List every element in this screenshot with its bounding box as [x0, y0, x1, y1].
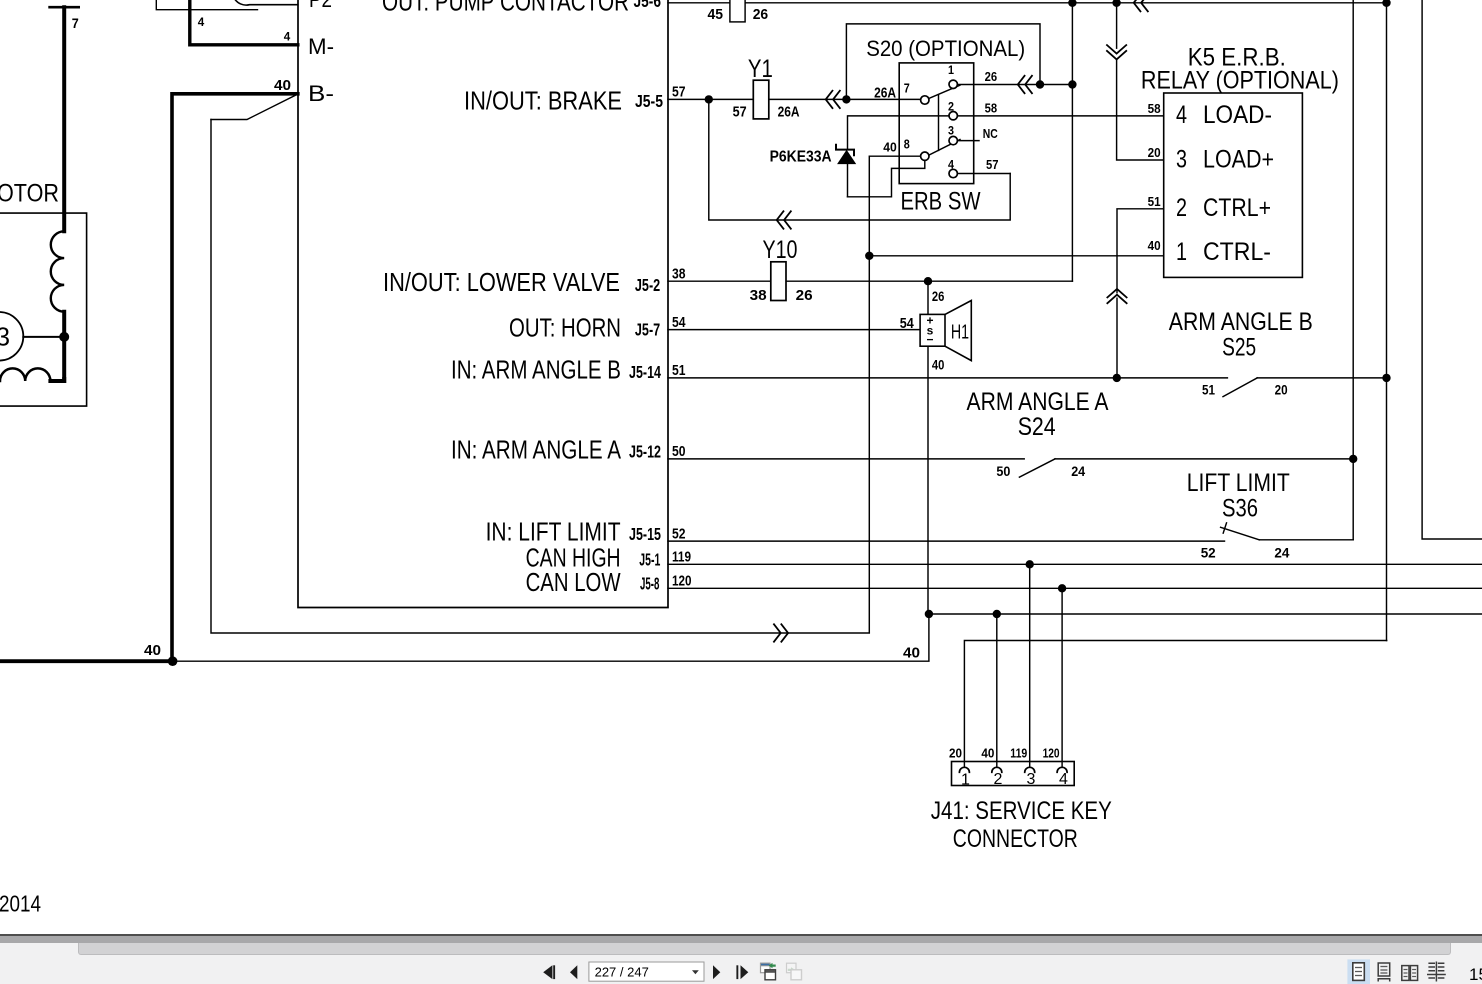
svg-text:40: 40: [903, 645, 920, 662]
TVS diode P6KE33A: [836, 116, 855, 197]
continuous facing mode: [1427, 962, 1446, 982]
junction dot loop/26: [1036, 80, 1044, 88]
label H1: [951, 321, 969, 343]
next page button: [713, 965, 720, 979]
svg-text:2: 2: [994, 771, 1003, 788]
label 20 (S25): [1275, 382, 1288, 398]
label 26A (S20 pin7): [874, 85, 896, 102]
svg-text:51: 51: [1148, 195, 1161, 209]
connector chevrons right: [773, 624, 788, 643]
svg-text:26A: 26A: [778, 104, 800, 121]
svg-text:20: 20: [1148, 146, 1161, 160]
svg-text:CONNECTOR: CONNECTOR: [953, 825, 1078, 853]
svg-text:J5-1: J5-1: [639, 549, 660, 569]
wire net20 K5 pin3 riser: [1117, 3, 1164, 160]
svg-text:CAN LOW: CAN LOW: [526, 567, 621, 597]
svg-text:50: 50: [672, 443, 686, 460]
label 51 (S25): [1202, 382, 1215, 398]
svg-text:4: 4: [1176, 101, 1187, 129]
svg-text:26: 26: [753, 6, 769, 23]
label IN: ARM ANGLE A: [451, 434, 622, 464]
label 7: [72, 15, 79, 31]
svg-text:J41: SERVICE KEY: J41: SERVICE KEY: [931, 797, 1112, 825]
wire net20 link: [964, 641, 1386, 767]
label Y1: [748, 55, 773, 83]
junction dot net20 end: [1382, 0, 1390, 7]
label IN/OUT: LOWER VALVE: [383, 267, 620, 297]
wire net24 S24 right: [1055, 458, 1353, 460]
svg-text:3: 3: [1176, 146, 1187, 174]
label 26 (fuse right): [753, 6, 769, 23]
svg-text:J5-8: J5-8: [640, 574, 660, 594]
horn H1: [920, 301, 971, 361]
wire J5-14 net51: [668, 377, 1227, 379]
label pin 2: [948, 102, 954, 114]
label LIFT LIMIT: [1187, 469, 1290, 497]
svg-text:J5-7: J5-7: [635, 320, 660, 340]
label NC: [983, 127, 998, 141]
label S36: [1222, 494, 1258, 522]
switch S36 blade: [1221, 523, 1260, 540]
wire B- branch diagonal: [211, 96, 295, 120]
label 51 (K5): [1148, 195, 1161, 209]
label K5 pin 3 LOAD+: [1176, 146, 1274, 174]
svg-text:227 / 247: 227 / 247: [595, 965, 649, 980]
svg-text:120: 120: [672, 572, 692, 589]
label ARM ANGLE B: [1169, 308, 1313, 336]
svg-text:3: 3: [1027, 771, 1036, 788]
label 52 (J5-15): [672, 525, 686, 542]
label 38 (Y10 left): [750, 287, 767, 304]
label OUT: HORN: [509, 313, 621, 343]
wire net24 S36 right: [1259, 539, 1353, 541]
svg-text:3: 3: [0, 322, 10, 352]
connector J41 drop net120: [1061, 588, 1063, 767]
label 54 (H1): [900, 315, 915, 332]
svg-text:40: 40: [1148, 239, 1161, 253]
wire J5-8 net120 CAN low: [668, 587, 1482, 589]
svg-text:−: −: [926, 333, 933, 347]
connector chevrons on 57 return: [777, 211, 792, 230]
pin label M-: [308, 34, 334, 59]
svg-text:OUT: HORN: OUT: HORN: [509, 313, 621, 343]
svg-text:40: 40: [981, 746, 994, 760]
label IN/OUT: BRAKE: [464, 85, 622, 115]
wire J5-1 net119 CAN high: [668, 563, 1482, 565]
wire J5-15 net52: [668, 540, 1225, 542]
pin label B-: [308, 81, 334, 106]
label MOTOR: [0, 179, 59, 207]
label IN: LIFT LIMIT: [486, 517, 621, 547]
svg-text:38: 38: [672, 265, 686, 282]
label 26 (pin1): [985, 70, 998, 84]
label 24 (S36): [1274, 545, 1289, 561]
J41 pin 1 socket: [959, 767, 969, 772]
label J5-8: [640, 574, 660, 594]
connector J41 drop net119: [1029, 564, 1031, 767]
svg-text:4: 4: [1059, 771, 1068, 788]
connector chevrons on top wire: [1134, 0, 1149, 12]
svg-text:20: 20: [1275, 382, 1288, 398]
label 58 (pin2): [985, 102, 998, 116]
connector J41 drop net40: [996, 614, 998, 767]
label pin 8: [904, 137, 910, 152]
label Y10: [763, 236, 798, 264]
svg-text:26A: 26A: [874, 85, 896, 102]
first page button: [543, 965, 555, 979]
svg-text:OUT: PUMP CONTACTOR: OUT: PUMP CONTACTOR: [382, 0, 629, 17]
connector chevrons on brake wire: [826, 90, 841, 109]
series coil: [0, 368, 64, 381]
svg-text:ARM ANGLE A: ARM ANGLE A: [967, 388, 1109, 416]
svg-text:ERB SW: ERB SW: [901, 188, 981, 216]
wire net51 K5 pin2 drop: [1117, 209, 1164, 378]
svg-text:1: 1: [1176, 238, 1187, 266]
svg-text:52: 52: [1201, 545, 1216, 561]
svg-text:15: 15: [1469, 965, 1482, 984]
wire netB- link: [211, 120, 869, 634]
junction dot net40 bus: [168, 656, 178, 666]
svg-text:S25: S25: [1222, 333, 1256, 361]
relay K5 box: [1164, 93, 1303, 277]
S20 pin 3 contact: [949, 136, 957, 144]
junction dot net40 branch: [865, 252, 873, 260]
svg-text:Y10: Y10: [763, 236, 798, 264]
contactor tip arc: [234, 0, 298, 5]
svg-text:51: 51: [1202, 382, 1215, 398]
label 20 (J41): [949, 746, 962, 760]
svg-text:3: 3: [948, 126, 954, 138]
wire B- thick: [172, 94, 298, 661]
svg-text:40: 40: [144, 642, 161, 659]
junction dot 26 top: [1068, 0, 1076, 7]
wire M- thick: [190, 0, 298, 45]
label K5 pin 4 LOAD-: [1176, 101, 1272, 129]
label 52 (S36): [1201, 545, 1216, 561]
junction dot net20 top: [1112, 0, 1120, 7]
svg-text:45: 45: [708, 6, 724, 23]
J41 pin 3 socket: [1025, 767, 1035, 772]
label 26 (Y10 right): [796, 287, 813, 304]
svg-text:57: 57: [733, 104, 747, 121]
label 20 (K5): [1148, 146, 1161, 160]
wire net57 return loop: [709, 99, 1010, 220]
label pin 3: [948, 126, 954, 138]
junction dot 119/J41: [1026, 560, 1034, 568]
label 119 (J41): [1010, 746, 1027, 760]
S20 blade 7-1: [929, 85, 960, 98]
svg-text:ARM ANGLE B: ARM ANGLE B: [1169, 308, 1313, 336]
svg-text:CTRL-: CTRL-: [1203, 238, 1271, 266]
page number box: [589, 962, 704, 981]
wire J5-2 net38 lower valve: [668, 280, 1072, 282]
svg-text:8: 8: [904, 137, 910, 152]
label pin 7: [904, 81, 910, 96]
label 4 (left): [198, 17, 205, 29]
junction dot 120/J41: [1058, 584, 1066, 592]
label pin 4: [948, 160, 955, 172]
svg-text:1: 1: [948, 65, 955, 77]
label ARM ANGLE A: [967, 388, 1109, 416]
junction dot S24/net24: [1349, 455, 1357, 463]
junction dot 26A: [842, 95, 850, 103]
svg-text:2014: 2014: [0, 891, 41, 917]
label K5 E.R.B.: [1188, 44, 1286, 72]
svg-text:119: 119: [1010, 746, 1027, 760]
next view button (disabled): [787, 963, 802, 980]
wire net40 horn drop: [927, 346, 929, 614]
solenoid Y10: [771, 262, 786, 301]
label 40 (pin8): [883, 140, 897, 155]
wire NC stub pin3: [957, 140, 979, 142]
label 40 (K5): [1148, 239, 1161, 253]
junction dot 38/H1: [924, 277, 932, 285]
label S24: [1018, 413, 1056, 441]
svg-text:NC: NC: [983, 127, 998, 141]
svg-text:26: 26: [796, 287, 813, 304]
wire net58 S20 pin2 to K5: [848, 115, 1163, 117]
svg-text:20: 20: [949, 746, 962, 760]
svg-text:CTRL+: CTRL+: [1203, 194, 1271, 222]
switch S24 blade: [1019, 459, 1055, 477]
wire armature link: [23, 336, 64, 338]
svg-text:IN/OUT: BRAKE: IN/OUT: BRAKE: [464, 85, 622, 115]
label P6KE33A: [770, 149, 832, 166]
label 50 (S24): [996, 463, 1010, 479]
label 40 (riser): [903, 645, 920, 662]
connector chevrons up: [1107, 289, 1128, 304]
last page button: [736, 965, 748, 979]
label S25: [1222, 333, 1256, 361]
svg-text:MOTOR: MOTOR: [0, 179, 59, 207]
label K5 pin 2 CTRL+: [1176, 194, 1271, 222]
vertical net20 right: [1386, 3, 1388, 641]
svg-text:M-: M-: [308, 34, 334, 59]
label 45: [708, 6, 724, 23]
label J41 pin numbers: [961, 771, 1068, 789]
junction dot 26 riser: [1068, 80, 1076, 88]
S20 pin 7 contact: [921, 96, 929, 104]
svg-text:RELAY (OPTIONAL): RELAY (OPTIONAL): [1141, 67, 1339, 95]
label 120 (J41): [1043, 746, 1060, 760]
connector chevrons on 26 wire: [1018, 75, 1033, 94]
label K5 pin 1 CTRL-: [1176, 238, 1271, 266]
svg-text:B-: B-: [308, 81, 334, 106]
svg-text:IN: ARM ANGLE B: IN: ARM ANGLE B: [451, 355, 621, 385]
wire S20 bypass loop: [846, 24, 1040, 100]
svg-text:S20 (OPTIONAL): S20 (OPTIONAL): [866, 36, 1025, 61]
wire field to armature: [62, 312, 66, 381]
svg-text:P2: P2: [309, 0, 332, 12]
armature M3: [0, 312, 23, 361]
label 4 (right): [284, 32, 291, 44]
label J5-7: [635, 320, 660, 340]
svg-text:24: 24: [1071, 463, 1085, 479]
wire motor field top: [62, 7, 66, 231]
svg-text:54: 54: [900, 315, 915, 332]
label 50 (J5-12): [672, 443, 686, 460]
J41 pin 2 socket: [992, 767, 1002, 772]
fuse F? 45/26: [730, 0, 745, 22]
terminal 7 cap: [50, 6, 79, 9]
svg-text:119: 119: [672, 548, 691, 565]
label ERB SW: [901, 188, 981, 216]
wire net57 S20 pin4: [957, 173, 1010, 175]
svg-text:54: 54: [672, 314, 686, 331]
vertical right edge stub: [1422, 0, 1482, 539]
label 2014: [0, 891, 41, 917]
motor box: [0, 213, 87, 406]
wire net40 bus thin: [173, 614, 929, 661]
junction dot motor: [59, 332, 69, 342]
continuous page mode: [1378, 963, 1390, 982]
label 40 (J41): [981, 746, 994, 760]
connector chevrons down: [1106, 45, 1127, 60]
svg-text:50: 50: [996, 463, 1010, 479]
svg-text:40: 40: [883, 140, 897, 155]
label J5-14: [629, 362, 661, 382]
solenoid Y1: [753, 80, 769, 119]
svg-text:51: 51: [672, 362, 686, 379]
svg-text:4: 4: [198, 17, 205, 29]
label 40 (bus): [144, 642, 161, 659]
svg-text:S24: S24: [1018, 413, 1056, 441]
label CONNECTOR: [953, 825, 1078, 853]
svg-text:LOAD+: LOAD+: [1203, 146, 1274, 174]
svg-text:24: 24: [1274, 545, 1289, 561]
wire J5-12 net50: [668, 458, 1024, 460]
junction dot 51: [1113, 374, 1121, 382]
vertical net24 right: [1352, 0, 1354, 540]
label 57 (brake): [672, 84, 686, 101]
svg-text:H1: H1: [951, 321, 969, 343]
svg-text:IN: ARM ANGLE A: IN: ARM ANGLE A: [451, 434, 622, 464]
label J5-2: [635, 275, 660, 295]
svg-text:LIFT LIMIT: LIFT LIMIT: [1187, 469, 1290, 497]
wire J5-5 net57 brake: [668, 98, 921, 100]
svg-text:26: 26: [985, 70, 998, 84]
single page mode (active): [1347, 959, 1370, 984]
svg-text:40: 40: [932, 357, 945, 372]
svg-text:4: 4: [948, 160, 955, 172]
svg-text:7: 7: [904, 81, 910, 96]
wire net26 to horn: [927, 281, 929, 314]
wire J5-7 net54 horn: [668, 329, 920, 331]
pin label P2: [309, 0, 332, 12]
label pin 1: [948, 65, 955, 77]
label 40 (H1): [932, 357, 945, 372]
S20 pin 4 contact: [949, 169, 957, 177]
junction dot S25/net20: [1382, 374, 1390, 382]
S20 blade 8-3: [930, 140, 960, 155]
label J5-12: [629, 442, 661, 462]
svg-text:4: 4: [284, 32, 291, 44]
wire net40 link: [929, 613, 1482, 615]
label 38 (J5-2): [672, 265, 686, 282]
label RELAY (OPTIONAL): [1141, 67, 1339, 95]
label H1 polarity: [926, 313, 933, 346]
S20 pin 2 contact: [949, 112, 957, 120]
label 26 (H1): [932, 289, 945, 304]
label 54 (J5-7): [672, 314, 686, 331]
svg-text:26: 26: [932, 289, 945, 304]
contactor box bottom: [156, 0, 257, 10]
svg-text:57: 57: [672, 84, 686, 101]
junction dot J5-5/57: [705, 95, 713, 103]
wire net40 to K5 pin1: [869, 255, 1163, 257]
label 120: [672, 572, 692, 589]
junction dot net40/J41: [993, 610, 1001, 618]
label 58 (K5): [1148, 102, 1161, 116]
svg-text:40: 40: [274, 77, 291, 94]
label J5-1: [639, 549, 660, 569]
label 26A (Y1 right): [778, 104, 800, 121]
label OUT: PUMP CONTACTOR: [382, 0, 629, 17]
switch S25 blade: [1223, 378, 1257, 397]
svg-text:J5-6: J5-6: [634, 0, 662, 11]
wire J5-6 net45/26 top: [668, 2, 1387, 4]
J41 pin 4 socket: [1057, 767, 1067, 772]
svg-text:7: 7: [72, 15, 79, 31]
svg-text:52: 52: [672, 525, 686, 542]
label 24 (S24): [1071, 463, 1085, 479]
svg-text:2: 2: [1176, 194, 1187, 222]
S20 pin 1 contact: [949, 80, 957, 88]
svg-text:J5-2: J5-2: [635, 275, 660, 295]
S20 pin 8 contact: [921, 152, 929, 160]
svg-text:J5-5: J5-5: [635, 91, 663, 111]
label J5-6: [634, 0, 662, 11]
label S20 (OPTIONAL): [866, 36, 1025, 61]
label CAN HIGH: [526, 543, 621, 573]
previous page button: [570, 965, 577, 979]
wire net26 from S20 pin1: [957, 84, 1072, 86]
facing page mode: [1402, 966, 1418, 981]
S20 blade link: [938, 95, 940, 151]
svg-text:58: 58: [985, 102, 998, 116]
svg-text:2: 2: [948, 102, 954, 114]
wire net40 bus thick: [0, 659, 173, 663]
label J41: SERVICE KEY: [931, 797, 1112, 825]
label 3: [0, 322, 10, 352]
svg-text:Y1: Y1: [748, 55, 773, 83]
svg-text:LOAD-: LOAD-: [1203, 101, 1272, 129]
wire pin8 lower link: [848, 160, 925, 196]
label J5-5: [635, 91, 663, 111]
svg-text:1: 1: [961, 772, 970, 789]
STATUSBAR: [0, 934, 1482, 936]
connector J5 controller box: [298, 0, 668, 608]
svg-text:J5-12: J5-12: [629, 442, 661, 462]
svg-text:J5-14: J5-14: [629, 362, 661, 382]
previous view button: [761, 963, 776, 980]
label 51 (J5-14): [672, 362, 686, 379]
switch S20 (optional) box: [899, 63, 974, 184]
label 119: [672, 548, 691, 565]
svg-text:IN/OUT: LOWER VALVE: IN/OUT: LOWER VALVE: [383, 267, 620, 297]
svg-text:S36: S36: [1222, 494, 1258, 522]
wire pin8 net40 drop: [869, 156, 920, 633]
svg-text:120: 120: [1043, 746, 1060, 760]
label J5-15: [629, 524, 661, 544]
svg-text:J5-15: J5-15: [629, 524, 661, 544]
wire net26 riser: [1071, 3, 1073, 281]
svg-text:38: 38: [750, 287, 767, 304]
label CAN LOW: [526, 567, 621, 597]
label IN: ARM ANGLE B: [451, 355, 621, 385]
wire net20 S25 right: [1257, 377, 1387, 379]
label 57 (Y1 left): [733, 104, 747, 121]
